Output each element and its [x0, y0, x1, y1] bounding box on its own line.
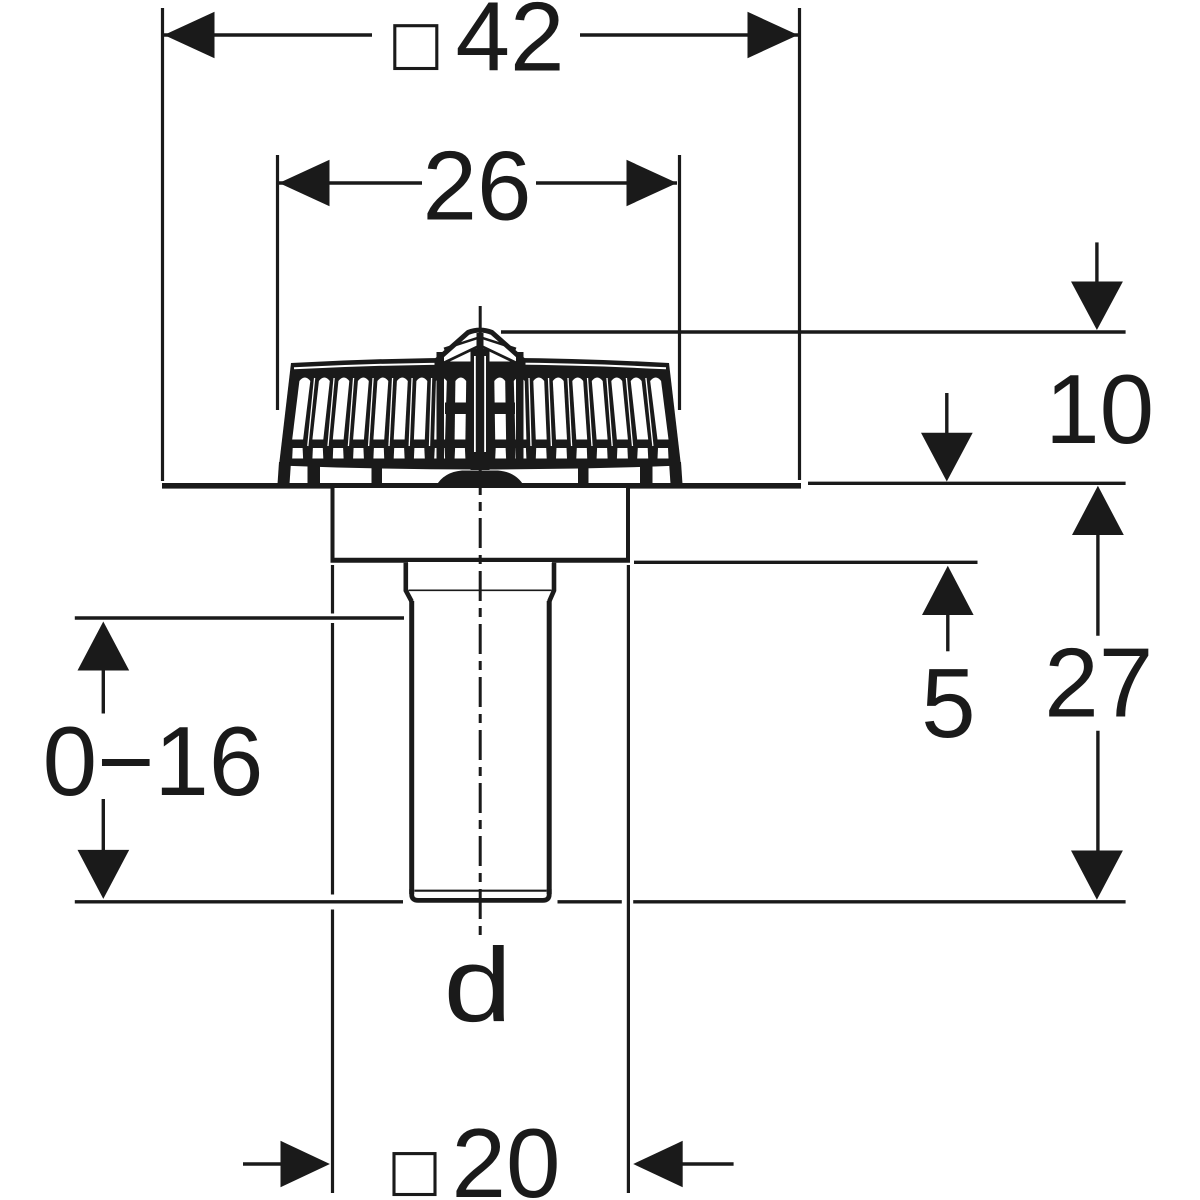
- center line: [479, 306, 482, 940]
- GRATE: [278, 330, 683, 486]
- pipe bottom inner line: [415, 890, 547, 892]
- cap lower chevron: [443, 346, 518, 364]
- socket interior: [408, 562, 552, 600]
- dimension 5 arrow top: [921, 433, 973, 482]
- dimension 20 tail right: [681, 1162, 734, 1165]
- dimension 26 line right segment: [536, 181, 677, 184]
- flange box bottom edge: [331, 558, 631, 563]
- grate central connector band: [445, 403, 515, 415]
- svg-text:20: 20: [451, 1108, 560, 1200]
- column slit right: [484, 356, 486, 452]
- extension line 20 left lower: [331, 910, 334, 1194]
- cap post right: [516, 352, 524, 468]
- extension line 26 left: [276, 155, 279, 410]
- roof line: [162, 483, 801, 489]
- pipe wall right: [547, 601, 552, 894]
- dimension 42 arrow right: [748, 12, 799, 58]
- grate foot 3: [578, 466, 589, 484]
- extension lines: [163, 8, 800, 1193]
- dimension 26 arrow right: [627, 160, 678, 206]
- dome top reference line: [501, 330, 1126, 333]
- grate windows row1: [292, 378, 668, 447]
- dimension 5 arrow top tail: [945, 393, 948, 434]
- insertion depth top reference line: [75, 616, 404, 619]
- socket wall left: [406, 563, 412, 602]
- grate foot 4: [640, 466, 653, 484]
- dimension 5 arrow bottom: [922, 566, 974, 615]
- label d: [444, 927, 512, 1044]
- pipe bottom edge: [412, 889, 550, 900]
- dimension 27 line lower: [1096, 731, 1099, 852]
- extension line 26 right: [678, 155, 681, 410]
- extension line 20 left middle: [331, 623, 334, 895]
- svg-text:d: d: [444, 927, 512, 1044]
- svg-text:10: 10: [1045, 354, 1154, 464]
- grate foot 2: [372, 466, 383, 484]
- dimension 26 arrow left: [279, 160, 330, 206]
- dimension 20 arrow right: [633, 1141, 683, 1187]
- dimension 26 line left segment: [279, 181, 422, 184]
- square symbol 42: [395, 26, 437, 69]
- cap post left: [437, 352, 445, 468]
- dimension 20 arrow left: [281, 1141, 330, 1187]
- dimension 27 line upper: [1096, 533, 1099, 636]
- dimension 0-16 arrow top: [78, 622, 130, 671]
- grate rim inner white line: [294, 363, 666, 368]
- pipe end reference line far right: [633, 900, 1125, 903]
- flange box right edge: [626, 488, 630, 560]
- dimension 42 line left segment: [164, 33, 372, 36]
- socket seam line: [409, 589, 552, 591]
- svg-text:26: 26: [422, 131, 531, 241]
- roof level reference line right: [808, 482, 1126, 485]
- dimension 0-16 line upper: [102, 668, 105, 714]
- extension line 20 left upper: [331, 565, 334, 614]
- grate side foot right: [669, 462, 683, 484]
- grate windows row2: [292, 448, 668, 459]
- center line: [479, 306, 482, 940]
- grate cap tent: [437, 330, 523, 364]
- dimension 42 line right segment: [580, 33, 798, 36]
- extension line 42 left: [161, 8, 164, 481]
- flange body: [331, 488, 631, 560]
- flange bottom reference line right: [634, 561, 978, 564]
- svg-text:0−16: 0−16: [43, 706, 264, 816]
- pipe interior: [414, 600, 547, 897]
- flange box interior: [335, 488, 627, 558]
- dimension 27 arrow top: [1072, 486, 1124, 535]
- grate foot 1: [308, 466, 321, 484]
- pipe end reference line right: [558, 900, 622, 903]
- socket wall right: [549, 563, 554, 602]
- dimension 0-16 line lower: [102, 799, 105, 852]
- dimension 20 tail left: [243, 1162, 285, 1165]
- dimension 5 arrow bottom tail: [946, 613, 949, 651]
- svg-text:5: 5: [921, 648, 976, 758]
- extension line 20 right: [627, 565, 630, 1193]
- grate bell base: [436, 471, 524, 487]
- reference lines: [75, 332, 1126, 902]
- square symbol 20: [394, 1154, 435, 1195]
- central column: [471, 349, 490, 470]
- dimension 27 arrow bottom: [1071, 851, 1123, 900]
- pipe end reference line left: [75, 900, 403, 903]
- dimension 0-16 arrow bottom: [78, 850, 130, 899]
- grate basket body: [279, 358, 681, 470]
- dimension 42 arrow left: [164, 12, 215, 58]
- svg-text:42: 42: [455, 0, 564, 92]
- flange box left edge: [331, 488, 335, 560]
- dimension 10 arrow tail: [1095, 242, 1098, 285]
- central column tip: [477, 333, 484, 353]
- cap inner chevron: [444, 337, 516, 349]
- extension line 42 right: [798, 8, 801, 480]
- pipe: [406, 562, 554, 900]
- dimension 10 arrow: [1071, 282, 1123, 331]
- column slit left: [474, 356, 476, 452]
- svg-text:27: 27: [1044, 628, 1153, 738]
- grate side foot left: [278, 462, 292, 484]
- pipe wall left: [409, 601, 414, 894]
